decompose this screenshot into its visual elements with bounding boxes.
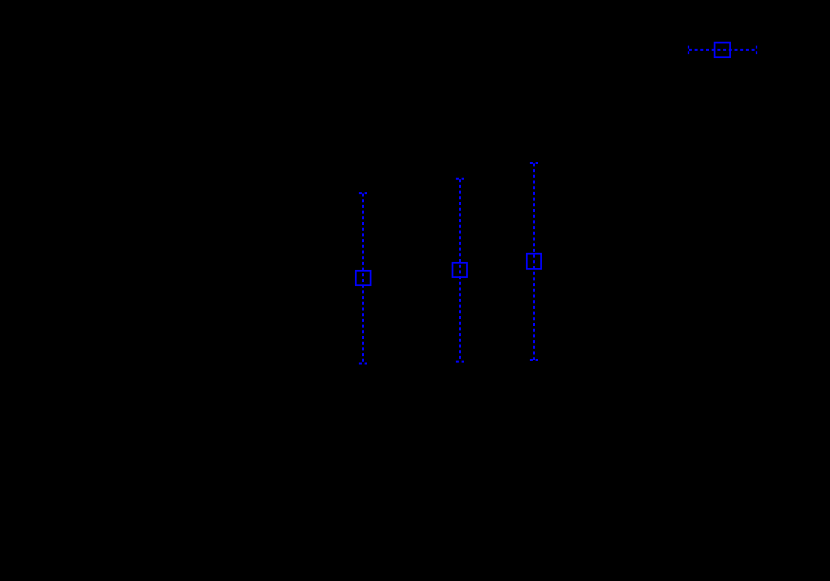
boxplot V3 (vertical, right) (527, 163, 541, 360)
cap V1 top (359, 192, 367, 194)
whisker V1 line (362, 193, 364, 363)
whisker V2 line (459, 179, 461, 362)
cap V2 top (456, 178, 464, 180)
box V1 (356, 271, 371, 285)
whisker H center line (689, 49, 757, 51)
box V3 (527, 254, 541, 269)
cap V1 bottom (359, 363, 367, 365)
boxplot H (horizontal, top-right) (689, 43, 757, 58)
whisker V3 line (533, 163, 535, 360)
box V2 (453, 263, 468, 277)
cap V3 top (530, 162, 538, 164)
cap H right (756, 46, 758, 55)
box H (715, 43, 731, 58)
boxplot V1 (vertical, left) (356, 193, 371, 363)
boxplot V2 (vertical, middle) (453, 179, 468, 362)
cap V3 bottom (530, 359, 538, 361)
cap V2 bottom (456, 361, 464, 363)
cap H left (688, 46, 690, 55)
